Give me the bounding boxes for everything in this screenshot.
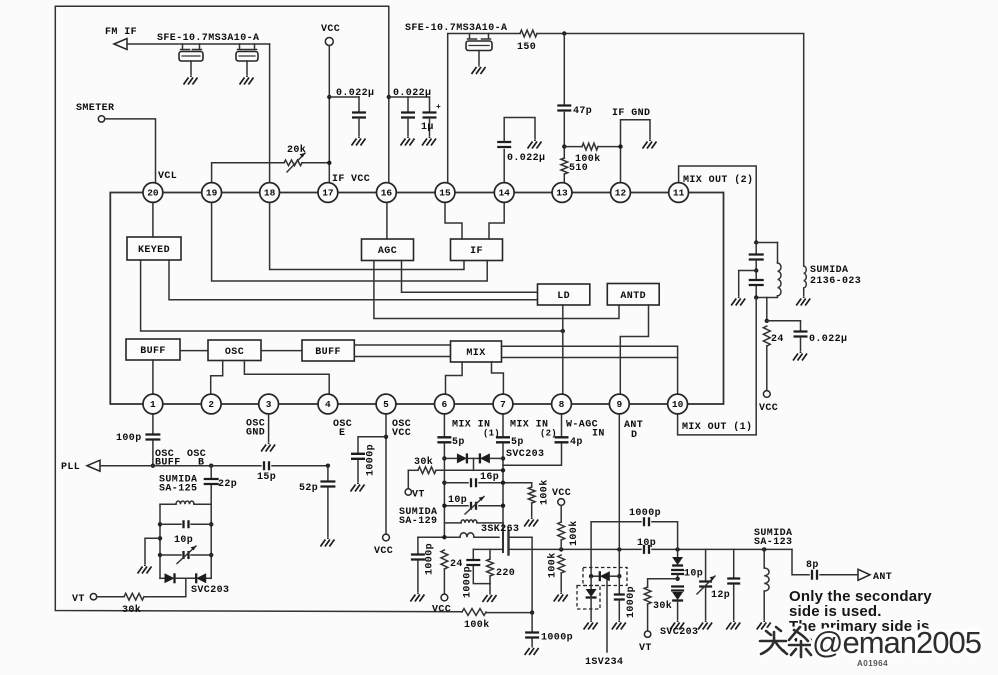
wire BUFF2-MIX lower bbox=[354, 356, 450, 358]
node 100k bias junction bbox=[559, 547, 563, 551]
svg-text:9: 9 bbox=[616, 399, 622, 410]
svg-text:47p: 47p bbox=[573, 106, 592, 117]
svg-text:0.022µ: 0.022µ bbox=[393, 88, 431, 99]
svg-text:VCC: VCC bbox=[759, 403, 778, 414]
capacitor 0.022u (mix out) bbox=[767, 320, 801, 322]
terminal VCC (mix out) bbox=[763, 391, 770, 398]
wire VT bias (antenna) bbox=[648, 579, 678, 587]
wire filters to pin 18 bbox=[269, 44, 271, 184]
node pin7 16p junction bbox=[501, 481, 505, 485]
resistor 100k (bottom bus) bbox=[462, 609, 486, 616]
svg-text:VCC: VCC bbox=[432, 605, 451, 616]
resistor 510 bbox=[561, 158, 568, 174]
capacitor 0.022u at pin16 line bbox=[389, 96, 430, 98]
inductor SUMIDA SA-123 secondary bbox=[763, 549, 765, 568]
node svc203 junction bbox=[675, 547, 679, 551]
capacitor 8p bbox=[812, 570, 817, 580]
ceramic filter SFE-10.7MS3A10-A (3) bbox=[468, 34, 491, 40]
svg-text:24: 24 bbox=[771, 334, 784, 345]
svg-text:4: 4 bbox=[325, 399, 331, 410]
svg-text:100p: 100p bbox=[116, 433, 142, 444]
wire 150 to transformer 2136-023 bbox=[537, 34, 804, 266]
node tank2 bottom bbox=[754, 295, 758, 299]
varactor 1SV234 (horizontal) bbox=[591, 575, 600, 577]
inductor (bead) FET input bbox=[460, 533, 474, 538]
svg-text:1000p: 1000p bbox=[541, 633, 573, 644]
pin 19 bbox=[202, 183, 222, 203]
svg-text:SUMIDA: SUMIDA bbox=[810, 265, 848, 276]
ground pin 3 bbox=[268, 413, 270, 442]
resistor 30k (OSC) bbox=[124, 593, 144, 600]
wire VCC loop from pin 16 around left/bottom border bbox=[55, 6, 462, 612]
svg-text:10p: 10p bbox=[637, 538, 656, 549]
wire VCC to pin 17 bbox=[328, 46, 330, 184]
wire MIX right lower to pin 10 line bbox=[502, 357, 678, 359]
resistor 30k (ant) bbox=[644, 587, 651, 604]
svg-text:VT: VT bbox=[412, 490, 425, 501]
capacitor 16p row bbox=[442, 481, 446, 485]
svg-text:IF: IF bbox=[470, 246, 483, 257]
wire FET output main line bbox=[509, 548, 642, 550]
ground 1SV234 left bbox=[584, 621, 598, 630]
ceramic filter SFE-10.7MS3A10-A (1) bbox=[181, 44, 202, 50]
pin 16 bbox=[377, 183, 397, 203]
node pin4-15p junction bbox=[326, 464, 330, 468]
svg-text:MIX OUT (1): MIX OUT (1) bbox=[682, 421, 752, 433]
block ANTD bbox=[607, 284, 659, 306]
terminal VCC (pin 5) bbox=[383, 534, 390, 541]
varactor SVC203 lower (antenna) bbox=[671, 587, 684, 591]
node pin12 junction bbox=[618, 144, 622, 148]
pin 12 bbox=[611, 183, 631, 203]
wire AGC right lead to LD bbox=[402, 261, 538, 293]
svg-text:VCC: VCC bbox=[552, 488, 571, 499]
capacitor 1000p (pin 5 bypass) bbox=[358, 437, 386, 453]
node pin2-PLL junction bbox=[209, 464, 213, 468]
inductor (tank2) bbox=[756, 242, 777, 244]
node tank2 top bbox=[754, 240, 758, 244]
terminal VT (OSC) bbox=[90, 594, 96, 600]
wire PLL row bbox=[100, 465, 211, 467]
inductor SUMIDA 2136-023 secondary bbox=[804, 266, 807, 288]
wire 24 to VCC bbox=[766, 346, 768, 391]
block LD bbox=[538, 284, 590, 305]
svg-text:13: 13 bbox=[556, 188, 568, 199]
svg-text:SA-125: SA-125 bbox=[159, 484, 197, 495]
svg-text:1000p: 1000p bbox=[626, 586, 637, 618]
capacitor 1000p (gate2) bbox=[472, 549, 474, 559]
leader line 1SV234 bbox=[606, 580, 608, 652]
svg-text:1µ: 1µ bbox=[421, 122, 434, 133]
wire tank to ground branch bbox=[145, 538, 160, 564]
svg-text:1SV234: 1SV234 bbox=[585, 657, 623, 668]
svg-text:SFE-10.7MS3A10-A: SFE-10.7MS3A10-A bbox=[405, 23, 507, 34]
svg-text:22p: 22p bbox=[218, 479, 237, 490]
svg-text:D: D bbox=[631, 430, 637, 441]
capacitor variable (antenna trim) bbox=[705, 549, 707, 580]
svg-text:MIX OUT (2): MIX OUT (2) bbox=[683, 174, 753, 186]
transistor 3SK263 bbox=[502, 533, 504, 552]
wire pin 8 to pin 7 node bbox=[503, 444, 562, 466]
wire tank to FET gate bbox=[502, 523, 504, 535]
svg-text:11: 11 bbox=[673, 188, 685, 199]
svg-text:2: 2 bbox=[208, 399, 214, 410]
svg-text:100k: 100k bbox=[547, 552, 559, 578]
svg-text:VCC: VCC bbox=[374, 546, 393, 557]
svg-text:15p: 15p bbox=[257, 472, 276, 483]
svg-text:BUFF: BUFF bbox=[315, 347, 341, 358]
pin 17 bbox=[318, 183, 338, 203]
capacitor 1000p (bypass) bbox=[644, 517, 649, 526]
svg-text:10: 10 bbox=[672, 399, 684, 410]
svg-text:IF: IF bbox=[332, 174, 345, 185]
varactor 1SV234 (vertical) bbox=[590, 576, 592, 588]
svg-text:B: B bbox=[198, 458, 204, 469]
svg-text:VCC: VCC bbox=[392, 428, 411, 439]
node diode row right bbox=[501, 456, 505, 460]
resistor 150 bbox=[520, 30, 537, 37]
svg-text:17: 17 bbox=[322, 188, 334, 199]
svg-text:8: 8 bbox=[559, 399, 565, 410]
resistor 100k (upper) bbox=[558, 522, 565, 540]
capacitor (tank, lower) bbox=[749, 280, 764, 285]
capacitor 0.022u at pin17 line bbox=[329, 96, 359, 98]
node 24ohm tap bbox=[442, 535, 446, 539]
node pin17 decoupling junction bbox=[327, 95, 331, 99]
svg-text:VCC: VCC bbox=[351, 174, 370, 185]
svg-text:OSC: OSC bbox=[225, 347, 244, 358]
wire MIX OUT (2) bend from pin 11 bbox=[679, 166, 757, 243]
varactor pair SVC203 (OSC) bbox=[160, 577, 165, 579]
wire varactor center tap bbox=[185, 578, 187, 596]
wire 1000p bypass row bbox=[591, 522, 641, 577]
svg-text:6: 6 bbox=[442, 399, 448, 410]
node pin5 bypass junction bbox=[384, 435, 388, 439]
svg-text:VCC: VCC bbox=[321, 24, 340, 35]
svg-text:ANTD: ANTD bbox=[620, 291, 646, 302]
svg-text:BUFF: BUFF bbox=[140, 346, 166, 357]
svg-text:1000p: 1000p bbox=[629, 508, 661, 519]
svg-text:52p: 52p bbox=[299, 483, 318, 494]
capacitor (SA-125 mid row) bbox=[160, 523, 181, 525]
svg-text:0.022µ: 0.022µ bbox=[336, 88, 374, 99]
ground tank2 bbox=[731, 297, 745, 306]
block BUFF (left) bbox=[126, 339, 180, 360]
wire pin 15 to IF bbox=[445, 202, 462, 240]
pin 5 OSC VCC feed bbox=[385, 413, 387, 534]
wire OSC-BUFF2 bbox=[261, 350, 302, 352]
capacitor 1000p (1SV234) bbox=[618, 576, 620, 593]
svg-text:GND: GND bbox=[246, 428, 265, 439]
svg-text:10p: 10p bbox=[174, 535, 193, 546]
svg-text:100k: 100k bbox=[539, 479, 551, 505]
ground IF GND bbox=[643, 140, 657, 149]
svg-text:A01964: A01964 bbox=[857, 659, 888, 668]
node 100p-PLL junction bbox=[151, 464, 155, 468]
svg-text:5: 5 bbox=[383, 399, 389, 410]
svg-text:30k: 30k bbox=[653, 600, 672, 612]
wire pin 16 to AGC bbox=[386, 202, 388, 240]
block KEYED bbox=[127, 237, 181, 260]
svg-text:SA-123: SA-123 bbox=[754, 537, 792, 548]
capacitor 10p variable (SA-129) bbox=[444, 505, 468, 507]
block BUFF (second) bbox=[302, 340, 354, 361]
node tank row3 right bbox=[209, 553, 213, 557]
resistor 100k (lower) bbox=[558, 555, 565, 573]
node 47p tap bbox=[562, 31, 566, 35]
svg-text:VCL: VCL bbox=[158, 171, 177, 182]
varactor SVC203 upper (antenna) bbox=[677, 549, 679, 556]
pin 8 bbox=[552, 394, 572, 414]
pot 20k arrow bbox=[287, 153, 305, 172]
wire pin 9 ANT D down bbox=[618, 413, 620, 549]
svg-text:FM IF: FM IF bbox=[105, 27, 137, 38]
wire pin 15 up to filter line bbox=[448, 34, 520, 184]
svg-text:100k: 100k bbox=[568, 520, 580, 546]
wire LD to pin 8 bbox=[562, 305, 564, 395]
resistor 220 bbox=[489, 549, 491, 559]
capacitor 4p (pin 8 W-AGC) bbox=[561, 413, 563, 436]
svg-text:SVC203: SVC203 bbox=[506, 449, 544, 460]
resistor 24 bbox=[763, 326, 770, 346]
node row 10p right bbox=[501, 504, 505, 508]
svg-text:20: 20 bbox=[147, 188, 159, 199]
block AGC bbox=[362, 239, 414, 261]
svg-text:5p: 5p bbox=[452, 437, 465, 448]
svg-text:MIX: MIX bbox=[466, 348, 485, 359]
svg-text:18: 18 bbox=[264, 188, 276, 199]
wire 510 to pin 13 bbox=[563, 174, 565, 184]
wire FET drain to bottom node bbox=[509, 537, 533, 612]
ground 52p bbox=[320, 538, 334, 547]
svg-text:8p: 8p bbox=[806, 560, 819, 571]
wire pin 20 to KEYED bbox=[152, 202, 154, 238]
svg-text:10p: 10p bbox=[448, 495, 467, 506]
terminal VCC (pin 17) bbox=[325, 38, 333, 46]
node SA-123 junction bbox=[762, 547, 766, 551]
svg-text:20k: 20k bbox=[287, 144, 306, 156]
wire BUFF2-MIX upper bbox=[354, 344, 450, 346]
node tank gnd branch bbox=[158, 536, 162, 540]
node 24ohm-0.022 junction bbox=[765, 319, 769, 323]
capacitor 5p (pin 6) bbox=[443, 413, 445, 436]
pin 13 bbox=[552, 183, 572, 203]
wire bottom bus to 3SK263 drain node bbox=[486, 612, 532, 614]
block MIX bbox=[451, 341, 502, 362]
pin 7 bbox=[493, 394, 513, 414]
block IF bbox=[451, 239, 503, 261]
node 1SV234 left bbox=[589, 574, 593, 578]
pin 4 bbox=[318, 394, 338, 414]
capacitor 22p (pin 2 line) bbox=[210, 466, 212, 478]
terminal VT (mix) bbox=[405, 489, 411, 495]
svg-text:220: 220 bbox=[496, 568, 515, 579]
wire tank left vertical bbox=[159, 504, 161, 578]
svg-text:IF GND: IF GND bbox=[612, 108, 650, 119]
wire ANTD right lead to pin 9 bbox=[620, 305, 648, 395]
terminal VCC (FET) bbox=[441, 594, 448, 601]
pin 9 bbox=[609, 394, 629, 414]
node tank row2 left bbox=[158, 522, 162, 526]
svg-text:1: 1 bbox=[150, 399, 156, 410]
svg-text:(2): (2) bbox=[540, 429, 557, 439]
wire MIX to pin 6 bbox=[446, 362, 463, 395]
node pin7 bias junction bbox=[501, 468, 505, 472]
terminal FM IF arrow bbox=[114, 39, 127, 50]
ceramic filter SFE-10.7MS3A10-A (2) bbox=[238, 44, 257, 50]
varactor pair SVC203 (mix) bbox=[444, 457, 457, 459]
svg-text:@eman2005: @eman2005 bbox=[812, 625, 981, 660]
wire pin 18 to IF bottom left bbox=[270, 202, 464, 270]
inductor SA-125 (tank top row) bbox=[160, 503, 176, 505]
wire OSC to pin 4 bbox=[244, 361, 329, 396]
wire VT to 30k bbox=[97, 596, 124, 598]
wire MIX right to pin 10 bbox=[502, 346, 678, 395]
wire KEYED right lead to LD bbox=[169, 260, 538, 300]
pin 2 bbox=[201, 394, 221, 414]
wire FM IF to pin 18 bbox=[127, 43, 270, 45]
node tank row2 right bbox=[209, 522, 213, 526]
capacitor 12p bbox=[733, 549, 735, 577]
capacitor (tank, upper) bbox=[755, 243, 757, 254]
svg-text:SVC203: SVC203 bbox=[191, 585, 229, 596]
node svc203 mid bbox=[675, 577, 679, 581]
node 100k-510 junction bbox=[562, 144, 566, 148]
terminal VCC (FET bias) bbox=[558, 499, 565, 506]
svg-text:1000p: 1000p bbox=[366, 444, 377, 476]
wire tank tap to ground bbox=[739, 271, 757, 297]
svg-text:16p: 16p bbox=[480, 472, 499, 483]
node VCC decoupling junction at pin16 line bbox=[387, 95, 391, 99]
ground svc203 bbox=[670, 621, 684, 630]
pin 14 bbox=[494, 183, 514, 203]
svg-text:150: 150 bbox=[517, 42, 536, 53]
svg-text:PLL: PLL bbox=[61, 462, 80, 473]
svg-text:SA-129: SA-129 bbox=[399, 516, 437, 527]
inductor SA-129 bbox=[444, 522, 461, 524]
pin 10 bbox=[668, 394, 688, 414]
wire tank2 bottom to 24 ohm branch bbox=[766, 298, 768, 321]
svg-text:2136-023: 2136-023 bbox=[810, 276, 861, 287]
ground SA-125 bbox=[138, 565, 152, 574]
svg-text:AGC: AGC bbox=[378, 246, 397, 257]
capacitor 15p bbox=[264, 461, 269, 470]
svg-text:BUFF: BUFF bbox=[155, 458, 181, 469]
svg-text:SMETER: SMETER bbox=[76, 103, 114, 114]
wire 15p to pin4 line bbox=[272, 465, 328, 467]
wire to antenna bbox=[792, 549, 809, 574]
node diode row left bbox=[442, 456, 446, 460]
capacitor 1000p (FET input) bbox=[417, 537, 419, 553]
ground 2136-023 bbox=[796, 297, 810, 306]
pin 1 bbox=[143, 394, 163, 414]
svg-text:E: E bbox=[339, 428, 345, 439]
svg-text:5p: 5p bbox=[511, 437, 524, 448]
svg-text:1000p: 1000p bbox=[425, 543, 436, 575]
wire FET input line bbox=[418, 536, 460, 538]
capacitor 52p (pin 4 line) bbox=[327, 466, 329, 481]
capacitor 1000p (drain) bbox=[531, 613, 533, 632]
svg-text:SVC203: SVC203 bbox=[660, 627, 698, 638]
wire pin 14 to IF bbox=[489, 202, 504, 240]
pin 5 bbox=[376, 394, 396, 414]
pin 15 bbox=[435, 183, 455, 203]
svg-text:12: 12 bbox=[615, 188, 627, 199]
potentiometer 20k row (pin19 to VCC line) bbox=[212, 163, 284, 184]
svg-text:100k: 100k bbox=[464, 619, 490, 631]
resistor 24 (to VCC) bbox=[441, 550, 448, 569]
wire 47p to resistor 510 bbox=[563, 113, 565, 159]
wire AGC left lead to ANTD bbox=[374, 261, 619, 319]
pin 3 bbox=[259, 394, 279, 414]
wire pin 19 to IF bottom right bbox=[212, 202, 488, 282]
node tank row3 left bbox=[158, 553, 162, 557]
node drain-bus junction bbox=[530, 610, 534, 614]
wire gate2 line bbox=[473, 548, 503, 550]
svg-text:KEYED: KEYED bbox=[138, 245, 170, 256]
terminal VT (ant) bbox=[644, 631, 650, 637]
capacitor 10p (antenna line) bbox=[644, 545, 649, 554]
node row 10p left bbox=[442, 504, 446, 508]
svg-text:4p: 4p bbox=[570, 437, 583, 448]
svg-text:IN: IN bbox=[592, 429, 605, 440]
node 1SV234 right bbox=[617, 574, 621, 578]
svg-text:7: 7 bbox=[500, 399, 506, 410]
svg-text:12p: 12p bbox=[711, 590, 730, 601]
resistor 30k (mix) bbox=[418, 467, 436, 474]
wire KEYED left lead to pin8 line bbox=[141, 260, 563, 331]
wire to 15p bbox=[211, 465, 261, 467]
node pin 9 junction bbox=[617, 547, 621, 551]
svg-text:100k: 100k bbox=[575, 153, 601, 165]
node KEYED-LD junction bbox=[561, 329, 565, 333]
wire OSC to pin 2 bbox=[211, 361, 223, 396]
svg-text:30k: 30k bbox=[122, 604, 141, 616]
resistor 100k (pin13-pin12) bbox=[564, 146, 582, 148]
svg-text:(1): (1) bbox=[483, 429, 500, 439]
svg-text:10p: 10p bbox=[684, 569, 703, 580]
svg-text:16: 16 bbox=[381, 188, 393, 199]
svg-text:3: 3 bbox=[266, 399, 272, 410]
svg-text:+: + bbox=[436, 103, 441, 112]
svg-text:30k: 30k bbox=[414, 456, 433, 468]
svg-text:0.022µ: 0.022µ bbox=[507, 153, 545, 164]
pin 6 bbox=[435, 394, 455, 414]
wire varactor tap to VT row bbox=[473, 458, 475, 470]
svg-text:24: 24 bbox=[450, 559, 463, 570]
svg-text:SFE-10.7MS3A10-A: SFE-10.7MS3A10-A bbox=[157, 33, 259, 44]
IC body outline (wire loop through pins) bbox=[110, 193, 723, 405]
svg-text:ANT: ANT bbox=[873, 572, 892, 583]
wire pin 12 IF GND bbox=[621, 120, 651, 184]
wire MIX OUT (1) from pin 10 bbox=[678, 298, 757, 435]
capacitor 0.022u at pin 14 bbox=[503, 150, 505, 184]
watermark 头条@eman2005 bbox=[760, 625, 981, 660]
svg-text:0.022µ: 0.022µ bbox=[809, 334, 847, 345]
node tank2 tap bbox=[754, 268, 758, 272]
pin 18 bbox=[260, 183, 280, 203]
pin 20 bbox=[143, 183, 163, 203]
capacitor 47p (pin 13 line) bbox=[563, 34, 565, 105]
svg-text:3SK263: 3SK263 bbox=[481, 524, 519, 535]
wire BUFF-OSC bbox=[180, 350, 208, 352]
dashed outline 1SV234 bbox=[583, 568, 627, 586]
capacitor 5p (pin 7) bbox=[502, 413, 504, 436]
wire SMETER to pin 20 bbox=[105, 119, 156, 184]
svg-text:15: 15 bbox=[439, 188, 451, 199]
pin 11 bbox=[669, 183, 689, 203]
svg-text:14: 14 bbox=[498, 188, 510, 199]
